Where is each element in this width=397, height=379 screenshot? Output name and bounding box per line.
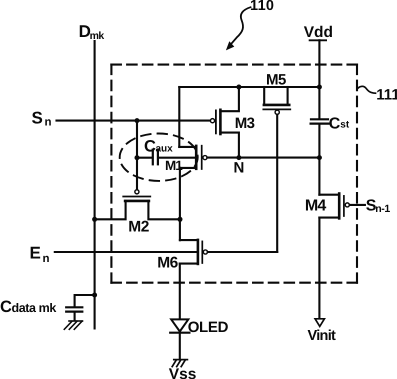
transistor M4: [319, 194, 349, 219]
junction rail at M3 drain: [236, 85, 241, 90]
wire M6 source to OLED anode: [179, 264, 181, 319]
transistor M2: [95, 190, 180, 220]
svg-text:C: C: [329, 116, 341, 133]
svg-text:111: 111: [376, 86, 397, 103]
label Caux: [144, 137, 173, 155]
svg-text:E: E: [30, 244, 41, 263]
label Sn-1: [366, 198, 391, 216]
svg-text:st: st: [340, 120, 350, 131]
svg-text:M4: M4: [305, 198, 327, 215]
wire M5 gate to M6 gate: [276, 115, 278, 252]
wire Vdd rail: [179, 86, 319, 88]
label Sn: [32, 109, 52, 129]
capacitor Cdata mk: [66, 295, 94, 320]
svg-text:OLED: OLED: [188, 319, 229, 336]
label Dmk: [79, 22, 105, 42]
transistor M6: [180, 240, 208, 264]
svg-text:mk: mk: [90, 30, 105, 42]
junction Caux tap: [135, 155, 140, 160]
wire M1 source down / M2 M6 column: [179, 168, 181, 240]
wire M4 source to Vinit: [318, 218, 320, 319]
junction Sn to Caux column: [135, 118, 140, 123]
junction rail at Vdd column: [317, 85, 322, 90]
wire M1 drain up to rail: [178, 87, 180, 147]
capacitor Cst: [311, 119, 329, 157]
svg-text:M2: M2: [128, 219, 149, 236]
wire node N from M1 gate to Cst column: [207, 157, 319, 159]
label 111 with leader squiggle: [358, 86, 397, 103]
wire M6 gate lead to M5 gate column: [208, 251, 278, 253]
svg-text:Vdd: Vdd: [304, 24, 333, 41]
junction Cdata branch at Dmk: [92, 293, 97, 298]
wire En emission line: [55, 251, 197, 253]
wire OLED cathode to Vss: [179, 332, 181, 359]
junction M2 right lead at column: [178, 217, 183, 222]
wire Cst column to M4: [318, 158, 320, 195]
dashed ellipse around Caux and M1: [120, 134, 198, 181]
junction node N at M3 source: [236, 155, 241, 160]
label Cdata mk: [0, 298, 56, 316]
wire Sn scan line: [57, 120, 211, 122]
svg-text:Vss: Vss: [169, 366, 197, 379]
svg-text:n: n: [43, 253, 50, 265]
svg-text:C: C: [0, 298, 12, 316]
transistor M3: [210, 87, 238, 158]
power Vdd stub: [310, 40, 327, 118]
ground Cdata: [64, 321, 82, 329]
transistor M1: [179, 146, 207, 169]
svg-text:110: 110: [250, 0, 274, 14]
transistor M5: [263, 87, 290, 114]
junction M2 left lead at Dmk: [92, 217, 97, 222]
wire Dmk data line vertical: [94, 41, 96, 329]
wire M4 gate lead to Sn-1: [350, 204, 365, 206]
power Vinit arrow: [315, 319, 324, 327]
svg-text:S: S: [32, 109, 43, 128]
wire Caux/M2-gate column: [136, 121, 138, 189]
svg-text:C: C: [144, 137, 156, 155]
svg-text:M3: M3: [235, 115, 255, 132]
dashed box pixel circuit 111: [111, 65, 357, 283]
label En: [30, 244, 50, 266]
label Cst: [329, 116, 350, 133]
junction N line at Cst: [317, 155, 322, 160]
svg-text:M5: M5: [266, 72, 286, 89]
capacitor Caux: [137, 150, 196, 165]
svg-text:N: N: [234, 160, 245, 177]
svg-text:M1: M1: [165, 158, 183, 173]
svg-text:M6: M6: [157, 255, 178, 272]
arrow leader from 110 to box: [226, 7, 251, 50]
diode OLED: [170, 319, 189, 332]
svg-text:n: n: [45, 117, 52, 129]
ground Vss: [172, 360, 187, 367]
svg-text:Vinit: Vinit: [308, 328, 337, 344]
svg-text:data mk: data mk: [12, 301, 57, 315]
svg-text:aux: aux: [156, 143, 174, 154]
svg-text:n-1: n-1: [375, 203, 390, 215]
